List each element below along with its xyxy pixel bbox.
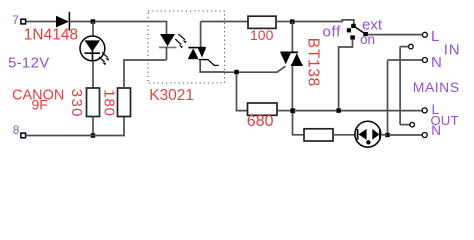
- wire gate rail: [225, 66, 286, 72]
- wire ext link bottom stub: [400, 124, 410, 126]
- wire R180 to opto cathode: [124, 60, 167, 88]
- wire pole to L IN: [368, 34, 422, 36]
- svg-text:7: 7: [12, 13, 19, 27]
- switch contact ext: [351, 24, 356, 28]
- neon lamp: [355, 121, 381, 147]
- wire ext link top stub: [400, 46, 409, 48]
- wire LED to R330: [92, 61, 94, 88]
- wire dot to R680: [237, 74, 248, 111]
- optocoupler K3021 dashed box: [148, 11, 225, 83]
- junction dot node A: [91, 19, 96, 24]
- switch contact on: [350, 35, 355, 39]
- resistor R680: [248, 103, 278, 115]
- wire bottom rail: [26, 117, 124, 136]
- svg-text:BT138: BT138: [304, 38, 321, 87]
- svg-text:680: 680: [247, 113, 274, 130]
- wire opto top to R100: [201, 21, 249, 23]
- wire node C rail to L OUT: [294, 110, 422, 112]
- svg-text:180: 180: [101, 89, 118, 116]
- terminal L IN: [422, 32, 427, 37]
- N bus vertical: [387, 60, 389, 135]
- svg-text:5-12V: 5-12V: [8, 54, 50, 71]
- opto LED: [159, 34, 177, 60]
- terminal N IN: [422, 58, 427, 63]
- switch pole: [363, 32, 368, 36]
- LED indicator: [80, 22, 105, 62]
- junction dot node B: [290, 19, 295, 24]
- svg-text:K3021: K3021: [149, 87, 194, 104]
- wire node C down to snubber resistor: [293, 113, 305, 135]
- resistor R330: [87, 88, 100, 117]
- wire N bus top: [388, 59, 423, 61]
- wire node B to switch ext contact: [294, 20, 354, 24]
- junction dot node C: [290, 108, 295, 113]
- terminal ext top: [409, 44, 414, 49]
- wire N bus to N OUT: [389, 134, 422, 136]
- svg-text:1N4148: 1N4148: [24, 27, 78, 44]
- diode D1 1N4148: [56, 12, 69, 31]
- switch arm: [355, 27, 364, 33]
- terminal 7: [21, 19, 26, 24]
- LED arrows: [99, 52, 109, 65]
- junction dot gate: [234, 70, 238, 74]
- triac BT138: [280, 22, 302, 111]
- svg-text:L: L: [431, 28, 439, 45]
- wire on contact to rail: [339, 40, 353, 111]
- terminal 8: [21, 133, 26, 138]
- svg-text:IN: IN: [444, 41, 461, 58]
- opto arrows: [175, 34, 186, 48]
- wire R330 to bottom rail: [92, 117, 94, 136]
- wire top rail left: [26, 21, 56, 23]
- wire resistor to neon: [333, 134, 355, 136]
- terminal L OUT: [422, 108, 427, 113]
- junction dot on rail: [336, 108, 340, 112]
- resistor R180: [118, 88, 131, 117]
- wire R680 to node C: [277, 110, 292, 112]
- svg-text:330: 330: [68, 89, 85, 118]
- svg-text:9F: 9F: [32, 97, 48, 113]
- svg-text:100: 100: [250, 27, 274, 43]
- svg-text:N: N: [431, 54, 442, 71]
- svg-text:OUT: OUT: [431, 113, 459, 128]
- svg-text:ext: ext: [362, 16, 383, 33]
- wire R100 to node B: [276, 21, 292, 23]
- terminal ext bottom: [410, 122, 415, 127]
- terminal N OUT: [422, 133, 427, 138]
- switch contact off: [347, 28, 351, 32]
- junction dot bottom: [91, 133, 96, 138]
- svg-text:MAINS: MAINS: [413, 79, 460, 95]
- wire neon to N bus: [381, 134, 387, 136]
- svg-text:off: off: [323, 23, 342, 40]
- wire node A to opto anode: [95, 22, 167, 35]
- photo-triac of K3021: [188, 22, 224, 73]
- resistor R100: [248, 16, 276, 28]
- wire diode to node A: [70, 21, 93, 23]
- svg-text:8: 8: [13, 123, 20, 137]
- snubber resistor: [304, 129, 333, 141]
- junction dot N bus: [385, 133, 389, 137]
- ext link bus vertical: [399, 47, 401, 125]
